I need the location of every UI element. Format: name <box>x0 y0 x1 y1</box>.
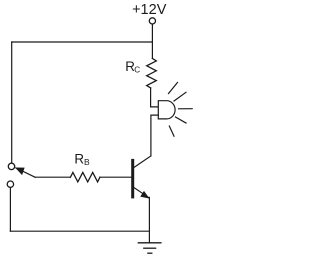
wire bottom rail <box>10 230 149 232</box>
lamp ray right horizontal <box>179 108 193 110</box>
wire top rail <box>12 41 153 43</box>
lamp DS1 body <box>158 101 175 119</box>
switch SW1 blade arrow <box>16 168 24 175</box>
svg-text:R: R <box>74 151 84 166</box>
ground symbol <box>138 243 161 253</box>
+12V terminal <box>149 18 155 24</box>
wire RC to lamp top stub <box>151 88 159 107</box>
resistor RC <box>147 58 157 88</box>
wire lamp bottom stub to collector <box>151 115 158 156</box>
lamp ray upper steep <box>169 83 178 94</box>
transistor Q1 emitter arrow <box>141 192 149 198</box>
switch SW1 blade <box>16 168 35 177</box>
switch SW1 bottom terminal <box>7 181 13 187</box>
lamp ray lower steep <box>169 126 174 136</box>
switch SW1 top terminal <box>8 163 14 169</box>
wire left vertical upper <box>11 42 13 163</box>
transistor Q1 collector lead <box>134 156 151 167</box>
transistor Q1 base bar <box>131 159 134 199</box>
svg-text:C: C <box>134 65 140 74</box>
wire left vertical lower <box>9 188 11 232</box>
transistor Q1 emitter lead <box>134 188 149 198</box>
lamp ray upper right <box>174 92 186 101</box>
lamp ray lower right <box>176 117 187 123</box>
svg-text:B: B <box>84 157 90 167</box>
wire RB to switch <box>35 176 70 178</box>
resistor RB <box>70 172 100 182</box>
svg-text:+12V: +12V <box>132 2 167 18</box>
wire emitter to ground <box>148 197 150 242</box>
wire base to RB <box>100 176 131 178</box>
wire +12V down to RC <box>151 42 153 58</box>
wire +12V terminal to top rail <box>151 24 153 42</box>
